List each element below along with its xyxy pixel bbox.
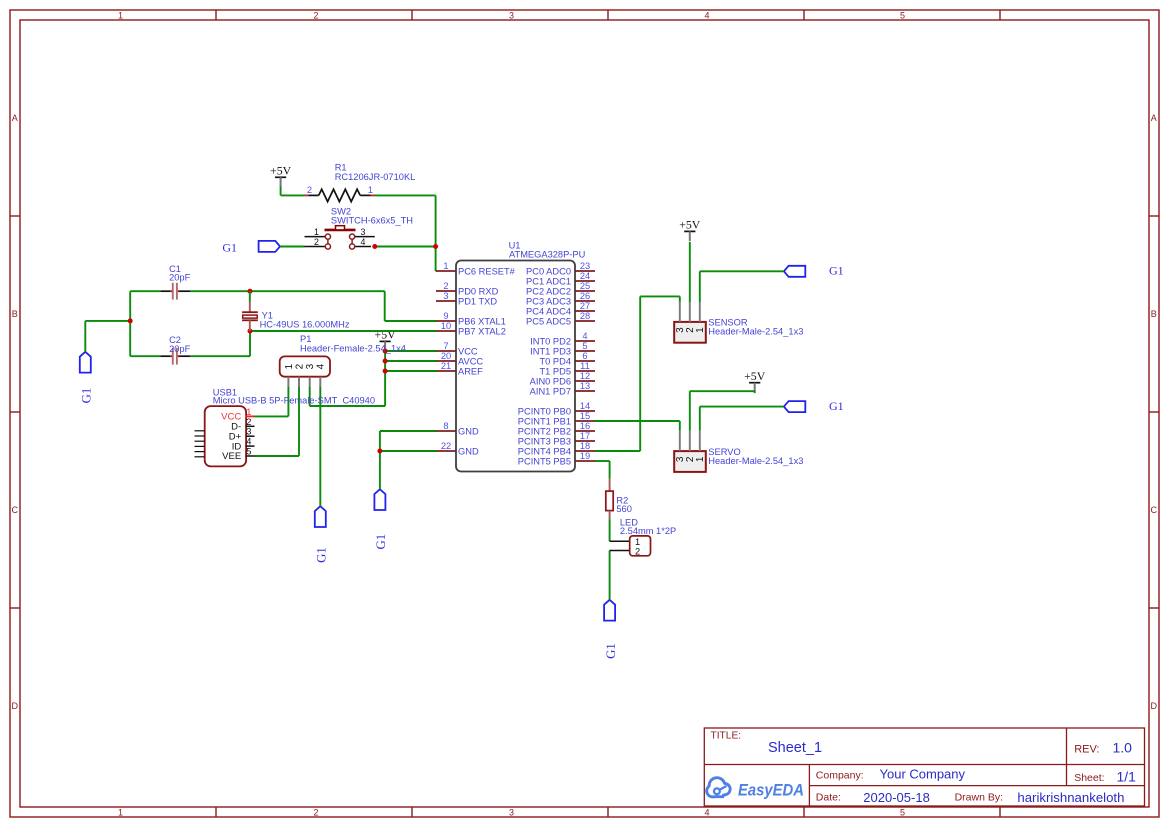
power flag +5V (R1) bbox=[270, 164, 292, 187]
junction AREF tap bbox=[383, 369, 388, 374]
wire +5V vertical to P1 pin3 bbox=[310, 352, 385, 406]
svg-text:Header-Female-2.54_1x4: Header-Female-2.54_1x4 bbox=[300, 344, 406, 354]
U1 pin 20 AVCC bbox=[436, 351, 483, 367]
wire +5V to U1 AREF pin21 bbox=[385, 370, 436, 372]
svg-text:Header-Male-2.54_1x3: Header-Male-2.54_1x3 bbox=[708, 456, 803, 466]
svg-text:+5V: +5V bbox=[270, 164, 292, 178]
wire U1 pin15 to SERVO pin3 bbox=[595, 421, 680, 431]
wire R1 pin1 to U1 pin1 bbox=[375, 195, 437, 271]
svg-text:1: 1 bbox=[118, 807, 123, 817]
svg-text:ATMEGA328P-PU: ATMEGA328P-PU bbox=[509, 250, 585, 260]
U1 pin 9 PB6 XTAL1 bbox=[436, 311, 506, 327]
svg-text:4: 4 bbox=[316, 363, 327, 369]
svg-text:T1 PD5: T1 PD5 bbox=[539, 367, 571, 377]
svg-text:G1: G1 bbox=[80, 388, 94, 404]
svg-text:G1: G1 bbox=[604, 643, 618, 659]
rev label bbox=[1074, 739, 1132, 755]
connector SENSOR bbox=[674, 301, 706, 342]
R1 pin number 1 bbox=[368, 185, 373, 195]
svg-text:5: 5 bbox=[246, 447, 251, 457]
svg-text:B: B bbox=[12, 309, 18, 319]
wire U1 pin19 to R2 bbox=[595, 461, 610, 478]
svg-text:+5V: +5V bbox=[679, 218, 701, 232]
U1 pin 27 PC4 ADC4 bbox=[526, 301, 595, 317]
SERVO label bbox=[708, 447, 803, 466]
svg-text:VCC: VCC bbox=[458, 347, 478, 357]
svg-text:Company:: Company: bbox=[816, 770, 864, 782]
svg-text:Your Company: Your Company bbox=[880, 767, 966, 782]
svg-text:AVCC: AVCC bbox=[458, 357, 483, 367]
svg-text:560: 560 bbox=[616, 504, 632, 514]
svg-text:TITLE:: TITLE: bbox=[711, 730, 742, 741]
U1 pin 17 PCINT3 PB3 bbox=[518, 431, 595, 447]
svg-text:REV:: REV: bbox=[1074, 743, 1099, 755]
svg-text:1: 1 bbox=[695, 456, 706, 462]
sheet name Sheet_1 bbox=[768, 740, 822, 756]
U1 pin 7 VCC bbox=[436, 341, 478, 357]
svg-text:3: 3 bbox=[246, 427, 251, 437]
svg-text:PCINT4 PB4: PCINT4 PB4 bbox=[518, 447, 571, 457]
svg-text:1: 1 bbox=[314, 227, 319, 237]
date row bbox=[816, 790, 1125, 805]
svg-text:INT0 PD2: INT0 PD2 bbox=[530, 337, 571, 347]
svg-text:Sheet:: Sheet: bbox=[1074, 772, 1104, 784]
svg-text:3: 3 bbox=[443, 291, 448, 301]
svg-text:3: 3 bbox=[305, 363, 316, 369]
USB1 label bbox=[213, 387, 375, 405]
svg-text:PCINT2 PB2: PCINT2 PB2 bbox=[518, 427, 571, 437]
U1 pin 6 T0 PD4 bbox=[539, 351, 595, 367]
svg-text:G1: G1 bbox=[374, 534, 388, 550]
wire rail to G1 flag bbox=[85, 321, 130, 352]
U1 pin 13 AIN1 PD7 bbox=[530, 381, 595, 397]
U1 pin 11 T1 PD5 bbox=[539, 361, 595, 377]
svg-text:C: C bbox=[12, 505, 19, 515]
svg-text:2: 2 bbox=[443, 281, 448, 291]
U1 pin 28 PC5 ADC5 bbox=[526, 311, 595, 327]
crystal Y1 bbox=[242, 291, 258, 331]
net flag G1 (LED) bbox=[604, 600, 618, 659]
svg-text:GND: GND bbox=[458, 427, 479, 437]
svg-text:3: 3 bbox=[361, 227, 366, 237]
Y1 label bbox=[260, 310, 350, 329]
switch SW2 bbox=[305, 226, 375, 249]
U1 pin 10 PB7 XTAL2 bbox=[436, 321, 506, 337]
wire U1 pin18 to SENSOR pin3 bbox=[595, 296, 680, 451]
resistor R2 bbox=[606, 478, 613, 519]
svg-text:PB7 XTAL2: PB7 XTAL2 bbox=[458, 327, 506, 337]
svg-text:SWITCH-6x6x5_TH: SWITCH-6x6x5_TH bbox=[331, 216, 413, 226]
title block grid bbox=[704, 728, 1144, 806]
U1 pin 18 PCINT4 PB4 bbox=[518, 441, 595, 457]
svg-text:+5V: +5V bbox=[375, 328, 397, 342]
wire LED pin2 to G1 bbox=[609, 551, 611, 600]
svg-text:INT1 PD3: INT1 PD3 bbox=[530, 347, 571, 357]
svg-text:G1: G1 bbox=[222, 241, 237, 255]
U1 pin 16 PCINT2 PB2 bbox=[518, 421, 595, 437]
svg-text:12: 12 bbox=[580, 371, 590, 381]
svg-text:PCINT5 PB5: PCINT5 PB5 bbox=[518, 457, 571, 467]
svg-text:5: 5 bbox=[900, 807, 905, 817]
U1 pin 5 INT1 PD3 bbox=[530, 341, 595, 357]
wire +5V to R1 pin2 bbox=[281, 187, 305, 196]
svg-text:PC4 ADC4: PC4 ADC4 bbox=[526, 307, 571, 317]
wire P1 pin4 to G1 bbox=[319, 387, 321, 506]
U1 pin 25 PC2 ADC2 bbox=[526, 281, 595, 297]
svg-text:20pF: 20pF bbox=[169, 272, 191, 282]
svg-text:PC5 ADC5: PC5 ADC5 bbox=[526, 317, 571, 327]
svg-text:1: 1 bbox=[118, 10, 123, 20]
U1 pin 24 PC1 ADC1 bbox=[526, 271, 595, 287]
svg-text:20pF: 20pF bbox=[169, 344, 191, 354]
svg-text:D: D bbox=[1151, 701, 1158, 711]
svg-text:23: 23 bbox=[580, 261, 590, 271]
svg-text:26: 26 bbox=[580, 291, 590, 301]
svg-text:2: 2 bbox=[294, 363, 305, 369]
svg-text:9: 9 bbox=[443, 311, 448, 321]
C2 label bbox=[169, 335, 191, 354]
svg-text:PCINT1 PB1: PCINT1 PB1 bbox=[518, 417, 571, 427]
wire GND vertical to G1 bbox=[379, 431, 381, 489]
sheet number bbox=[1074, 769, 1136, 785]
svg-text:25: 25 bbox=[580, 281, 590, 291]
svg-text:HC-49US 16.000MHz: HC-49US 16.000MHz bbox=[260, 320, 350, 330]
junction SW2 pin4 bbox=[372, 244, 377, 249]
svg-text:8: 8 bbox=[443, 421, 448, 431]
svg-text:17: 17 bbox=[580, 431, 590, 441]
svg-text:28: 28 bbox=[580, 311, 590, 321]
U1 pin 12 AIN0 PD6 bbox=[530, 371, 595, 387]
junction GND pin22 tap bbox=[377, 449, 382, 454]
connector P1 bbox=[280, 356, 330, 387]
svg-text:4: 4 bbox=[582, 331, 587, 341]
svg-text:18: 18 bbox=[580, 441, 590, 451]
wire SENSOR pin1 to G1 bbox=[700, 271, 784, 302]
svg-text:16: 16 bbox=[580, 421, 590, 431]
junction AVCC tap bbox=[383, 359, 388, 364]
junction C1-Y1 top bbox=[248, 289, 253, 294]
svg-text:AIN1 PD7: AIN1 PD7 bbox=[530, 387, 571, 397]
svg-text:3: 3 bbox=[509, 807, 514, 817]
svg-text:Date:: Date: bbox=[816, 792, 841, 804]
svg-text:G1: G1 bbox=[315, 547, 329, 563]
R1 pin number 2 bbox=[307, 185, 312, 195]
U1 pin 15 PCINT1 PB1 bbox=[518, 411, 595, 427]
connector LED bbox=[610, 536, 651, 557]
power flag +5V (SERVO) bbox=[744, 369, 766, 392]
svg-text:PB6 XTAL1: PB6 XTAL1 bbox=[458, 317, 506, 327]
U1 pin 8 GND bbox=[436, 421, 479, 437]
wire G1 flag to SW2 pin2 bbox=[280, 246, 305, 248]
junction VCC tap bbox=[383, 349, 388, 354]
SW2 label bbox=[331, 207, 413, 226]
net flag G1 (SERVO) bbox=[784, 399, 844, 413]
svg-text:GND: GND bbox=[458, 447, 479, 457]
C1 label bbox=[169, 264, 191, 283]
svg-text:4: 4 bbox=[704, 10, 709, 20]
svg-text:1: 1 bbox=[246, 407, 251, 417]
SENSOR label bbox=[708, 317, 803, 336]
svg-text:1/1: 1/1 bbox=[1117, 769, 1137, 785]
svg-text:Drawn By:: Drawn By: bbox=[955, 792, 1003, 804]
net flag G1 (SW2) bbox=[222, 241, 280, 255]
wire Y1 bottom to U1 pin10 bbox=[250, 330, 437, 332]
junction left rail bbox=[128, 318, 133, 323]
svg-text:11: 11 bbox=[580, 361, 590, 371]
svg-text:Sheet_1: Sheet_1 bbox=[768, 740, 822, 756]
svg-text:EasyEDA: EasyEDA bbox=[738, 781, 804, 799]
SW2 pin numbers bbox=[314, 227, 366, 247]
U1 pin 19 PCINT5 PB5 bbox=[518, 451, 595, 467]
svg-text:PCINT0 PB0: PCINT0 PB0 bbox=[518, 407, 571, 417]
U1 pin 2 PD0 RXD bbox=[436, 281, 499, 297]
LED label bbox=[620, 518, 676, 537]
U1 pin 21 AREF bbox=[436, 361, 483, 377]
svg-text:1: 1 bbox=[443, 261, 448, 271]
net flag G1 (P1 pin4) bbox=[315, 506, 329, 563]
svg-text:5: 5 bbox=[582, 341, 587, 351]
wire USB VEE to P1 pin2 bbox=[255, 387, 300, 456]
svg-text:B: B bbox=[1151, 309, 1157, 319]
power flag +5V (P1) bbox=[375, 328, 397, 351]
svg-text:6: 6 bbox=[582, 351, 587, 361]
svg-text:2: 2 bbox=[314, 237, 319, 247]
wire +5V to U1 AVCC pin20 bbox=[385, 360, 436, 362]
svg-text:1: 1 bbox=[284, 363, 295, 369]
svg-text:PC3 ADC3: PC3 ADC3 bbox=[526, 297, 571, 307]
connector USB1 bbox=[195, 406, 255, 466]
resistor R1 bbox=[305, 189, 375, 201]
svg-text:Header-Male-2.54_1x3: Header-Male-2.54_1x3 bbox=[708, 326, 803, 336]
svg-text:20: 20 bbox=[441, 351, 451, 361]
op-amp U1 body bbox=[456, 261, 575, 472]
svg-text:2: 2 bbox=[313, 807, 318, 817]
svg-text:13: 13 bbox=[580, 381, 590, 391]
wire left rail vertical bbox=[129, 291, 131, 356]
svg-text:PC1 ADC1: PC1 ADC1 bbox=[526, 277, 571, 287]
svg-text:AIN0 PD6: AIN0 PD6 bbox=[530, 377, 571, 387]
wire C2 left to rail bbox=[130, 355, 160, 357]
svg-text:harikrishnankeloth: harikrishnankeloth bbox=[1017, 790, 1124, 805]
wire R2 to LED pin1 bbox=[609, 519, 611, 541]
svg-text:PD0 RXD: PD0 RXD bbox=[458, 287, 499, 297]
wire SW2 pin4 to RESET node bbox=[375, 246, 436, 248]
company row bbox=[816, 767, 966, 782]
EasyEDA logo bbox=[707, 778, 804, 800]
wire C1 left to rail bbox=[130, 290, 160, 292]
svg-text:2: 2 bbox=[307, 185, 312, 195]
svg-text:2: 2 bbox=[635, 547, 640, 557]
svg-text:10: 10 bbox=[441, 321, 451, 331]
svg-text:14: 14 bbox=[580, 401, 590, 411]
U1 pin 4 INT0 PD2 bbox=[530, 331, 595, 347]
svg-text:1: 1 bbox=[368, 185, 373, 195]
svg-text:2.54mm 1*2P: 2.54mm 1*2P bbox=[620, 526, 676, 536]
svg-text:RC1206JR-0710KL: RC1206JR-0710KL bbox=[335, 172, 416, 182]
wire GND pin8 bbox=[380, 430, 437, 432]
svg-text:G1: G1 bbox=[829, 399, 844, 413]
svg-text:27: 27 bbox=[580, 301, 590, 311]
svg-text:G1: G1 bbox=[829, 264, 844, 278]
svg-text:1.0: 1.0 bbox=[1113, 739, 1133, 755]
svg-text:PCINT3 PB3: PCINT3 PB3 bbox=[518, 437, 571, 447]
svg-text:PD1 TXD: PD1 TXD bbox=[458, 297, 497, 307]
svg-text:C: C bbox=[1151, 505, 1158, 515]
svg-text:AREF: AREF bbox=[458, 367, 483, 377]
svg-text:2020-05-18: 2020-05-18 bbox=[863, 790, 930, 805]
capacitor C2 bbox=[160, 348, 190, 365]
svg-text:+5V: +5V bbox=[744, 369, 766, 383]
power flag +5V (SENSOR) bbox=[679, 218, 701, 241]
svg-text:1: 1 bbox=[695, 327, 706, 333]
U1 pin 3 PD1 TXD bbox=[436, 291, 497, 307]
net flag G1 (SENSOR) bbox=[784, 264, 844, 278]
U1 pin 22 GND bbox=[436, 441, 479, 457]
junction Y1 bottom bbox=[248, 329, 253, 334]
wire +5V to SENSOR pin2 bbox=[689, 242, 691, 303]
wire C2 right up to XTAL2 bbox=[190, 331, 250, 356]
svg-text:15: 15 bbox=[580, 411, 590, 421]
svg-text:D: D bbox=[12, 701, 19, 711]
svg-text:VEE: VEE bbox=[222, 451, 241, 462]
net flag G1 (crystal gnd) bbox=[80, 352, 94, 404]
U1 pin 23 PC0 ADC0 bbox=[526, 261, 595, 277]
svg-text:4: 4 bbox=[704, 807, 709, 817]
svg-text:2: 2 bbox=[313, 10, 318, 20]
wire SERVO pin1 to G1 bbox=[700, 407, 784, 431]
wire +5V to SERVO pin2 bbox=[690, 391, 755, 430]
U1 pin 1 PC6 RESET# bbox=[436, 261, 516, 277]
svg-text:24: 24 bbox=[580, 271, 590, 281]
U1 pin 14 PCINT0 PB0 bbox=[518, 401, 595, 417]
wire USB VCC to P1 pin1 bbox=[255, 387, 289, 416]
R2 label bbox=[616, 496, 632, 514]
R1 label bbox=[335, 163, 416, 182]
svg-text:T0 PD4: T0 PD4 bbox=[539, 357, 571, 367]
wire GND pin22 bbox=[380, 450, 437, 452]
connector SERVO bbox=[674, 431, 706, 472]
svg-text:A: A bbox=[12, 113, 18, 123]
svg-text:22: 22 bbox=[441, 441, 451, 451]
svg-text:A: A bbox=[1151, 113, 1157, 123]
svg-text:5: 5 bbox=[900, 10, 905, 20]
svg-text:PC0 ADC0: PC0 ADC0 bbox=[526, 267, 571, 277]
svg-text:19: 19 bbox=[580, 451, 590, 461]
svg-text:2: 2 bbox=[246, 417, 251, 427]
svg-text:Micro USB-B 5P-Female-SMT_C409: Micro USB-B 5P-Female-SMT_C40940 bbox=[213, 396, 375, 406]
wire +5V to U1 VCC pin7 bbox=[385, 350, 436, 352]
net flag G1 (U1 gnd) bbox=[374, 489, 388, 549]
U1 pin 26 PC3 ADC3 bbox=[526, 291, 595, 307]
U1 label bbox=[509, 240, 586, 259]
svg-text:4: 4 bbox=[246, 437, 251, 447]
P1 label bbox=[300, 334, 406, 353]
svg-text:PC6 RESET#: PC6 RESET# bbox=[458, 267, 516, 277]
capacitor C1 bbox=[160, 283, 190, 300]
svg-text:PC2 ADC2: PC2 ADC2 bbox=[526, 287, 571, 297]
svg-text:21: 21 bbox=[441, 361, 451, 371]
svg-text:3: 3 bbox=[509, 10, 514, 20]
title label bbox=[711, 730, 742, 741]
svg-text:4: 4 bbox=[361, 237, 366, 247]
wire C1 right to XTAL1 bbox=[190, 291, 436, 321]
svg-text:7: 7 bbox=[443, 341, 448, 351]
junction RESET node bbox=[433, 244, 438, 249]
